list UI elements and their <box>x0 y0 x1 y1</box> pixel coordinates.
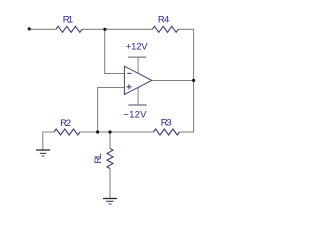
svg-text:+12V: +12V <box>126 42 149 53</box>
svg-text:R3: R3 <box>161 117 172 128</box>
svg-text:R2: R2 <box>60 118 71 129</box>
svg-text:RL: RL <box>93 153 103 163</box>
svg-text:R4: R4 <box>158 15 169 26</box>
svg-text:R1: R1 <box>63 15 73 26</box>
svg-text:−12V: −12V <box>123 109 147 120</box>
